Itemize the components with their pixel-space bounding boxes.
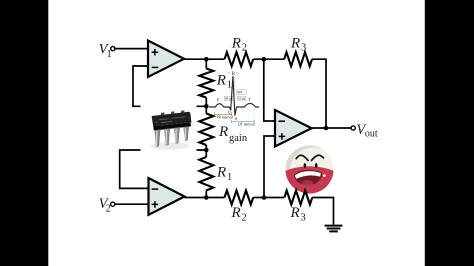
svg-text:R: R bbox=[216, 165, 226, 181]
svg-text:2: 2 bbox=[106, 203, 111, 214]
svg-text:R: R bbox=[218, 124, 228, 140]
svg-text:R: R bbox=[216, 72, 226, 88]
svg-text:out: out bbox=[365, 129, 378, 140]
ECG waveform picture bbox=[209, 72, 259, 127]
back pins bbox=[161, 112, 165, 115]
QRS complex box bbox=[237, 90, 247, 94]
op-amp U2 (V2 buffer) bbox=[149, 178, 185, 215]
svg-text:2: 2 bbox=[242, 212, 247, 223]
junction node A2 out bbox=[204, 195, 209, 200]
op-amp U1 (V1 buffer) bbox=[148, 41, 184, 78]
resistor R2 (top) bbox=[225, 52, 254, 66]
PR segment box bbox=[224, 96, 233, 101]
terminal Vout bbox=[351, 126, 355, 130]
DIP-8 chip photo bbox=[141, 103, 197, 154]
wire between R2 and R3 top bbox=[253, 58, 284, 60]
ST segment box bbox=[237, 96, 246, 101]
resistor Rgain bbox=[199, 114, 213, 146]
wire R3 to feedback corner and down to output node bbox=[312, 59, 326, 128]
svg-text:QT interval: QT interval bbox=[238, 123, 255, 127]
ground bbox=[325, 225, 343, 227]
white content panel between black pillarbox bars bbox=[48, 0, 425, 266]
faint guides bbox=[215, 72, 254, 122]
svg-text:Q: Q bbox=[228, 110, 231, 115]
pins bbox=[154, 130, 160, 147]
resistor R3 (top) bbox=[284, 52, 312, 66]
eyebrows bbox=[296, 155, 308, 160]
op-amp U3 (difference amp) bbox=[275, 110, 312, 147]
svg-text:R: R bbox=[231, 205, 241, 221]
wire bottom rail A2 out to R2 bbox=[185, 197, 225, 199]
svg-text:R: R bbox=[290, 205, 300, 221]
PR interval (orange) bbox=[215, 113, 232, 116]
wire V2 input bbox=[115, 203, 149, 205]
svg-text:2: 2 bbox=[242, 43, 247, 54]
junction node output bbox=[324, 126, 329, 131]
resistor R1 (bottom) bbox=[199, 157, 213, 190]
junction node bottom R2/R3 bbox=[262, 195, 267, 200]
resistor R3 (bottom) bbox=[284, 191, 312, 205]
junction node Y (Rgain/R1) bbox=[204, 148, 209, 153]
mouth bbox=[294, 170, 322, 185]
wire A2 feedback loop bbox=[120, 150, 207, 188]
eyes bbox=[304, 163, 307, 168]
wire top rail A1 out to R2 bbox=[184, 58, 225, 60]
resistor R1 (top) vertical chain bbox=[205, 59, 207, 68]
Electrode pokeball image bbox=[285, 145, 338, 195]
svg-text:R: R bbox=[231, 35, 241, 51]
junction node A1 out bbox=[204, 57, 209, 62]
terminal V1 bbox=[111, 47, 115, 51]
svg-text:QRS: QRS bbox=[237, 91, 243, 94]
wire R3 to ground corner bbox=[312, 198, 333, 225]
svg-text:1: 1 bbox=[107, 49, 112, 60]
QT interval (teal) bbox=[232, 120, 255, 123]
junction node top R2/R3 bbox=[262, 57, 267, 62]
svg-text:1: 1 bbox=[227, 80, 232, 91]
body bbox=[152, 112, 191, 127]
wire diff-amp minus input bbox=[264, 59, 275, 121]
wire between R2 and R3 bottom bbox=[253, 197, 284, 199]
ECG trace bbox=[209, 76, 259, 115]
wire output bbox=[312, 127, 352, 129]
wire A1 feedback loop bbox=[133, 66, 205, 106]
terminal V2 bbox=[111, 202, 115, 206]
svg-text:T: T bbox=[248, 97, 251, 102]
wire V1 input bbox=[115, 48, 148, 50]
svg-text:3: 3 bbox=[301, 212, 306, 223]
svg-text:ST seg: ST seg bbox=[238, 98, 246, 101]
resistor R2 (bottom) bbox=[225, 191, 254, 205]
svg-text:gain: gain bbox=[229, 133, 248, 144]
junction node X (R1/Rgain) bbox=[204, 104, 209, 109]
svg-text:PR interval: PR interval bbox=[217, 115, 233, 119]
svg-text:3: 3 bbox=[301, 43, 306, 54]
wire diff-amp plus input bbox=[264, 136, 275, 198]
svg-text:1: 1 bbox=[227, 172, 232, 183]
svg-text:R: R bbox=[290, 35, 300, 51]
